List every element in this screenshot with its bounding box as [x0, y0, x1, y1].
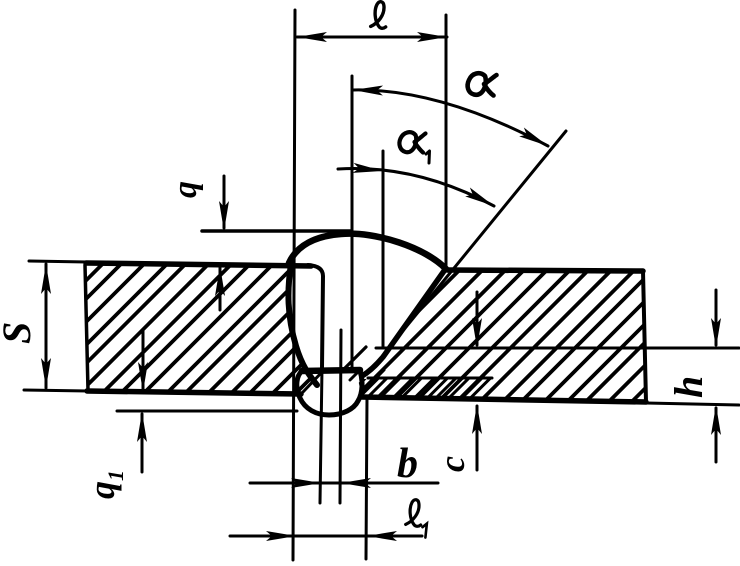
weld left fusion boundary: [288, 264, 317, 385]
dimension q lower arrow: [215, 266, 225, 296]
dimension l right arrow: [417, 32, 447, 42]
dimension l left arrow: [297, 32, 327, 42]
alpha arc left arrow: [353, 85, 383, 96]
right plate root-gap edge extension: [340, 330, 341, 503]
dimension q1 upper arrow line: [142, 330, 145, 389]
dimension q upper arrow: [219, 201, 229, 231]
dimension c upper arrow line: [476, 292, 479, 345]
bevel edge line (alpha leg): [388, 131, 566, 349]
left plate top edge: [86, 263, 311, 266]
dimension line l1: [230, 535, 422, 538]
right plate right edge: [643, 271, 646, 402]
label alpha1: [399, 132, 429, 163]
dimension b right arrow: [341, 478, 371, 488]
dimension line S: [45, 264, 48, 388]
groove edge extension below root: [320, 368, 322, 503]
svg-text:1: 1: [103, 470, 128, 481]
dimension q1 upper arrow: [138, 362, 148, 392]
svg-text:h: h: [666, 376, 711, 398]
dimension arc alpha1: [338, 168, 494, 206]
dimension c lower arrow line: [476, 406, 479, 470]
dimension h upper arrow line: [715, 290, 718, 345]
left plate left edge: [85, 265, 88, 390]
dimension line l: [297, 36, 447, 39]
right plate bottom edge: [362, 397, 646, 402]
dimension q lower arrow line: [219, 268, 222, 310]
dimension h lower arrow line: [715, 408, 718, 462]
extension line alpha1 vertical: [382, 151, 385, 347]
reference line root level (c,h top): [376, 347, 739, 350]
dimension l1 right arrow: [367, 531, 397, 541]
dimension h lower arrow: [711, 405, 721, 435]
dimension l1 left arrow: [266, 531, 296, 541]
dimension c lower arrow: [472, 404, 482, 434]
left plate top extension line: [29, 261, 87, 262]
extension line weld axis: [351, 76, 354, 371]
right plate top edge: [447, 270, 643, 271]
label q1: [82, 470, 128, 499]
svg-text:S: S: [0, 322, 39, 344]
weld cap (face reinforcement) outline: [289, 234, 446, 269]
label alpha: [468, 73, 497, 95]
dimension c upper arrow: [472, 318, 482, 348]
extension line root bead right: [366, 397, 367, 559]
dimension q upper arrow line: [223, 176, 226, 228]
dimension line b: [250, 482, 438, 485]
hatch tick left of root: [303, 372, 322, 392]
weld right fusion boundary: [362, 271, 444, 376]
hatch tick right of root gap: [345, 347, 366, 368]
alpha1 arc mid arrow: [353, 163, 384, 176]
hatch tick right of root: [362, 370, 384, 392]
left plate bottom edge: [87, 391, 301, 394]
weld root face bar: [302, 370, 360, 371]
left plate groove edge (square edge with corner): [308, 265, 323, 368]
alpha1 arc end arrow: [465, 188, 496, 211]
extension line left weld-width (long vertical): [293, 10, 295, 560]
dimension b left arrow: [291, 478, 321, 488]
label l: [371, 1, 389, 29]
svg-text:q: q: [82, 481, 122, 499]
dimension h upper arrow: [711, 318, 721, 348]
reference line root bottom (q1): [117, 410, 297, 413]
label l1: [405, 499, 430, 538]
left plate bottom extension line: [24, 390, 88, 391]
svg-text:c: c: [432, 456, 472, 472]
dimension q1 lower arrow line: [141, 414, 144, 472]
reference line weld cap top (q): [202, 229, 351, 233]
dimension arc alpha: [353, 90, 548, 146]
svg-text:q: q: [167, 181, 204, 198]
extension line right weld-width: [445, 15, 448, 267]
svg-text:b: b: [397, 441, 418, 487]
alpha arc right arrow: [519, 128, 550, 151]
reference line penetration (c bottom): [368, 377, 492, 380]
hatch tick under right fusion: [350, 370, 360, 380]
dimension S bottom arrow: [41, 358, 51, 388]
right plate bottom extension line: [646, 403, 739, 405]
dimension q1 lower arrow: [137, 412, 147, 442]
dimension S top arrow: [41, 264, 51, 294]
root bead outline: [297, 371, 362, 415]
